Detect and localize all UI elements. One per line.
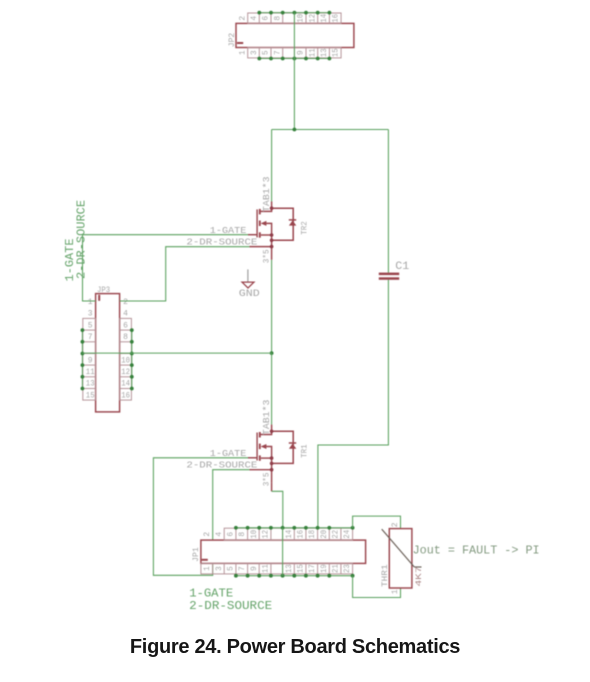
svg-text:C1: C1 — [395, 261, 409, 273]
svg-text:19: 19 — [321, 564, 329, 573]
capacitor C1 — [379, 273, 399, 280]
TR2 drain junction dot — [270, 206, 274, 210]
svg-text:21: 21 — [333, 564, 341, 573]
wire: JP1 top pins bus — [236, 527, 353, 529]
svg-text:3*5: 3*5 — [262, 473, 272, 487]
wire: JP3 pin 2 to TR2 source (net 2-DR-SOURCE) — [120, 247, 250, 301]
svg-text:2-DR-SOURCE: 2-DR-SOURCE — [189, 599, 272, 613]
JP3 right pin numbers — [121, 299, 130, 400]
wire: TR1 gate net 1-GATE down to JP1 pin 1 — [153, 458, 248, 576]
TR2 pin name 3*5 — [262, 249, 272, 263]
svg-text:22: 22 — [333, 529, 341, 538]
svg-text:2-DR-SOURCE: 2-DR-SOURCE — [186, 460, 257, 471]
svg-text:9: 9 — [298, 50, 306, 55]
svg-text:2-DR-SOURCE: 2-DR-SOURCE — [186, 236, 257, 247]
label JP3 — [97, 285, 110, 295]
node A junction dot — [293, 128, 297, 132]
wire: JP2 bottom pins bus — [259, 58, 329, 60]
wire: net through JP1 body — [282, 528, 284, 576]
svg-text:2: 2 — [392, 522, 400, 527]
svg-text:13: 13 — [86, 381, 95, 389]
THR1 pin number 1 — [392, 589, 400, 594]
svg-text:5: 5 — [88, 322, 93, 330]
JP3 left pin cells — [83, 318, 96, 400]
svg-text:Jout = FAULT -> PI: Jout = FAULT -> PI — [413, 543, 540, 557]
label JP2 — [227, 33, 237, 47]
JP3 left pin numbers — [86, 299, 95, 400]
svg-text:18: 18 — [309, 529, 317, 538]
net label Jout = FAULT -> PI — [413, 543, 540, 557]
svg-text:5: 5 — [228, 566, 236, 571]
net label 1-GATE (rotated) — [63, 239, 77, 282]
JP2 bottom pin numbers 1-15 — [239, 48, 340, 57]
net label 2-DR-SOURCE (rotated) — [75, 200, 89, 279]
svg-text:12: 12 — [263, 529, 271, 538]
wire: C1 bottom down then left to JP1 rail — [318, 280, 389, 528]
connector JP3 body — [96, 294, 120, 412]
wire: JP1 bottom row to THR1 pin 1 — [353, 576, 401, 598]
svg-text:14: 14 — [121, 381, 130, 389]
connector JP2 body — [236, 23, 354, 47]
svg-text:20: 20 — [321, 529, 329, 538]
junction dots JP2 bottom row — [257, 57, 331, 61]
TR1 body diode loop — [272, 431, 297, 463]
svg-text:16: 16 — [298, 529, 306, 538]
svg-text:6: 6 — [123, 322, 128, 330]
label TR2 — [300, 221, 310, 235]
TR2 source junction dots — [270, 233, 274, 248]
wire: JP2 top pins bus — [259, 12, 329, 14]
svg-text:5: 5 — [263, 50, 271, 55]
transistor TR1 MOSFET symbol — [248, 425, 272, 483]
node mid junction dot — [270, 351, 274, 355]
value label 4K7 — [414, 567, 424, 587]
svg-text:2: 2 — [204, 531, 212, 536]
wire: TR1 pin 3*5 down to JP1 top row — [272, 483, 283, 528]
TR1 drain junction dot — [270, 430, 274, 434]
svg-text:10: 10 — [121, 357, 130, 365]
junction dots JP2 top row — [257, 11, 331, 15]
svg-text:9: 9 — [251, 566, 259, 571]
connector JP1 body — [201, 540, 366, 563]
wire: right rail down to C1 — [387, 130, 389, 273]
svg-text:4: 4 — [123, 311, 128, 319]
wire: mid junction down to TR1 drain — [271, 353, 273, 425]
svg-text:13: 13 — [286, 564, 294, 573]
svg-text:2: 2 — [123, 299, 128, 307]
figure caption — [0, 636, 590, 659]
svg-text:12: 12 — [121, 369, 130, 377]
svg-text:1: 1 — [392, 589, 400, 594]
TR2 pin name TAB1*3 — [262, 177, 272, 213]
wire: left branch down to TR2 drain — [271, 130, 273, 202]
svg-text:10: 10 — [251, 529, 259, 538]
wire: JP1 top row to THR1 pin 2 — [353, 516, 401, 529]
label JP1 — [191, 547, 201, 562]
svg-text:15: 15 — [86, 392, 95, 400]
svg-text:16: 16 — [333, 13, 341, 22]
svg-text:10: 10 — [298, 13, 306, 22]
svg-text:3: 3 — [251, 50, 259, 55]
JP2 bottom pin cells — [248, 48, 341, 58]
svg-text:8: 8 — [239, 531, 247, 536]
TR2 pin name 2-DR-SOURCE — [186, 236, 257, 247]
TR2 body diode loop — [272, 208, 297, 240]
TR1 pin name 2-DR-SOURCE — [186, 460, 257, 471]
THR1 pin number 2 — [392, 522, 400, 527]
JP3 right pin cells — [120, 318, 132, 400]
label TR1 — [300, 444, 310, 458]
svg-text:23: 23 — [344, 564, 352, 573]
svg-text:TAB1*3: TAB1*3 — [262, 177, 272, 213]
label C1 — [395, 261, 409, 273]
thermistor THR1 — [382, 529, 422, 588]
svg-text:2-DR-SOURCE: 2-DR-SOURCE — [75, 200, 89, 279]
svg-text:JP2: JP2 — [227, 33, 237, 47]
JP2 top pin cells — [248, 13, 341, 23]
wire: JP3 right pins bus — [131, 330, 133, 388]
svg-text:13: 13 — [321, 48, 329, 57]
wire: JP1 bottom pins bus — [236, 575, 353, 577]
ground GND symbol — [239, 269, 260, 300]
svg-text:17: 17 — [309, 564, 317, 573]
label THR1 — [380, 564, 390, 587]
TR1 pin name 3*5 — [262, 473, 272, 487]
junction dots JP1 top row — [234, 526, 355, 530]
svg-text:2: 2 — [239, 15, 247, 20]
junction dots JP3 right column — [130, 328, 134, 390]
junction dots JP3 left column — [81, 328, 85, 390]
svg-text:11: 11 — [86, 369, 95, 377]
transistor TR2 MOSFET symbol — [248, 202, 272, 260]
svg-text:GND: GND — [239, 289, 260, 300]
svg-text:4: 4 — [251, 15, 259, 20]
JP2 top pin numbers 2-16 — [239, 13, 340, 22]
JP1 bottom pin cells — [201, 563, 353, 574]
svg-text:JP3: JP3 — [97, 285, 110, 295]
JP1 bottom pin numbers 1-23 — [204, 564, 352, 573]
svg-text:4K7: 4K7 — [414, 567, 424, 587]
wire: horizontal rail from TR2 drain branch to right rail — [272, 129, 389, 131]
svg-text:12: 12 — [309, 13, 317, 22]
svg-text:6: 6 — [263, 15, 271, 20]
svg-text:15: 15 — [298, 564, 306, 573]
wire: JP3 pin 1 to TR2 gate (net 1-GATE) — [83, 235, 249, 301]
svg-text:8: 8 — [123, 334, 128, 342]
svg-text:TR1: TR1 — [300, 444, 310, 458]
svg-text:11: 11 — [263, 564, 271, 573]
svg-text:3: 3 — [88, 311, 93, 319]
svg-text:6: 6 — [228, 531, 236, 536]
svg-text:3: 3 — [216, 566, 224, 571]
TR1 pin name TAB1*3 — [262, 400, 272, 436]
svg-text:7: 7 — [88, 334, 93, 342]
svg-text:7: 7 — [239, 566, 247, 571]
JP1 top pin numbers 2-24 — [204, 529, 352, 538]
svg-text:8: 8 — [274, 15, 282, 20]
TR2 pin name 1-GATE — [210, 225, 247, 236]
wire: vertical net through JP2 down to junction A — [293, 13, 295, 130]
wire: TR1 source net 2-DR-SOURCE down to JP1 pin 2 — [213, 470, 250, 540]
svg-text:THR1: THR1 — [380, 564, 390, 587]
svg-text:1: 1 — [204, 566, 212, 571]
wire: TR2 source down to mid junction — [271, 260, 273, 353]
wire: JP3 left pins bus — [81, 330, 83, 388]
junction dots JP1 bottom row — [234, 574, 355, 578]
svg-text:TAB1*3: TAB1*3 — [262, 400, 272, 436]
svg-text:15: 15 — [333, 48, 341, 57]
svg-text:7: 7 — [274, 50, 282, 55]
svg-text:16: 16 — [121, 392, 130, 400]
svg-text:1: 1 — [88, 299, 93, 307]
svg-text:11: 11 — [309, 48, 317, 57]
svg-text:4: 4 — [216, 531, 224, 536]
svg-text:1: 1 — [239, 50, 247, 55]
net label 1-GATE (below JP1) — [189, 587, 233, 601]
net label 2-DR-SOURCE (below JP1) — [189, 599, 272, 613]
svg-text:3*5: 3*5 — [262, 249, 272, 263]
svg-text:TR2: TR2 — [300, 221, 310, 235]
svg-text:JP1: JP1 — [191, 547, 201, 562]
TR1 source junction dots — [270, 456, 274, 471]
wire: net through JP3 to mid junction — [82, 352, 271, 354]
svg-text:14: 14 — [321, 13, 329, 22]
JP1 top pin cells — [224, 528, 352, 540]
svg-text:14: 14 — [286, 529, 294, 538]
TR1 pin name 1-GATE — [210, 448, 247, 459]
svg-text:24: 24 — [344, 529, 352, 538]
svg-text:9: 9 — [88, 357, 93, 365]
